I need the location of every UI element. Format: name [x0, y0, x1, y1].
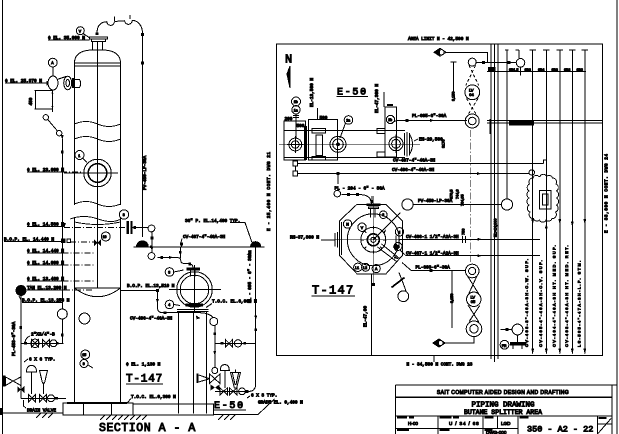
svg-text:6 X 8 TYP.: 6 X 8 TYP.: [251, 393, 277, 398]
E-50 channel box: [284, 121, 306, 160]
arrow CV-406 drop: [156, 299, 159, 304]
E-50 right head cap: [410, 134, 413, 155]
svg-text:6B2: 6B2: [577, 68, 583, 72]
45deg offset pipe: [48, 120, 58, 132]
dot bypass right: [243, 342, 246, 345]
tag circle 8: [119, 210, 128, 219]
black diamond CV-467 takeoff: [393, 243, 401, 251]
nozzle circle n2: [330, 136, 346, 152]
svg-text:10: 10: [103, 235, 107, 239]
nozzle outlet line: [133, 227, 149, 229]
riser PL-605 elevation: [255, 248, 257, 344]
tag circle 3: [165, 268, 183, 277]
svg-text:2a: 2a: [346, 119, 350, 123]
vessel T-147 top nozzle flange: [90, 37, 108, 50]
drain end circle: [48, 395, 55, 402]
svg-text:450: 450: [29, 97, 34, 105]
elbow c1: [43, 115, 48, 120]
E-50 bottom flange: [186, 304, 204, 307]
vent mushroom E-50: [220, 365, 229, 388]
rack line labels rotated: [524, 244, 581, 347]
field instrument FR: [500, 324, 526, 349]
radial diagonal NE: [373, 213, 400, 240]
drain valve E-50 no.2: [230, 388, 238, 395]
gate valve bypass: [226, 340, 233, 347]
tower shell circle plan: [347, 214, 399, 266]
svg-text:6B4: 6B4: [538, 68, 544, 72]
label TOC EL 0300: [128, 395, 177, 403]
elbow c2: [57, 131, 62, 136]
svg-text:15: 15: [82, 353, 86, 357]
vessel T-147 center line: [97, 42, 99, 289]
PL-204 branch: [334, 175, 385, 205]
bolt ticks: [361, 226, 386, 254]
svg-text:756: 756: [462, 229, 466, 235]
instrument bubble A: [48, 58, 57, 76]
check valves black: [17, 386, 24, 393]
fold tick left: [0, 408, 3, 415]
dot on feed jog: [188, 263, 191, 266]
svg-text:1b: 1b: [294, 100, 298, 104]
svg-text:PL - 204 - 6" - 86A: PL - 204 - 6" - 86A: [335, 186, 385, 191]
dot bypass left: [221, 342, 224, 345]
label 36 P EL14400: [185, 219, 252, 243]
dot drain E-50: [246, 390, 249, 393]
CV-406 plan line: [293, 166, 535, 176]
label TOC EL 6000: [206, 299, 257, 307]
tag circle 2b: [386, 115, 394, 123]
label 6x6 typ: [24, 358, 55, 363]
svg-text:2b: 2b: [388, 118, 392, 122]
tag circle N: [343, 220, 351, 228]
tag circle V: [358, 223, 366, 231]
skirt right edge: [120, 288, 122, 403]
svg-text:PV-450-LP-30A: PV-450-LP-30A: [418, 199, 453, 204]
tag circles on inlet: [292, 97, 301, 138]
dot on PL-605 riser: [254, 328, 257, 331]
svg-text:3175: 3175: [442, 140, 446, 148]
tag circle 4: [165, 300, 180, 309]
skirt left edge: [74, 288, 76, 403]
CV-467 line: [400, 250, 540, 257]
inner circle bold: [367, 234, 379, 246]
nozzle circle n1: [287, 136, 304, 153]
drain valve 1: [29, 395, 36, 403]
svg-text:PL - 605 - 6" - 30A: PL - 605 - 6" - 30A: [248, 253, 253, 303]
exchanger E-50 shell circle: [177, 272, 213, 308]
riser from plan top nozzle: [371, 196, 373, 200]
internal bowtie fitting: [94, 240, 101, 247]
rack header pipes with top tees: [505, 50, 588, 354]
tag circle A plan: [372, 265, 380, 273]
svg-text:PL-605-6"-30A: PL-605-6"-30A: [412, 114, 447, 119]
shell break wavy line 4: [70, 217, 121, 222]
svg-text:DRAIN VALVE: DRAIN VALVE: [27, 409, 56, 414]
svg-text:370,5: 370,5: [450, 189, 454, 199]
nozzle into tower: [72, 78, 81, 88]
gate valve 2: [43, 340, 50, 348]
svg-text:6B3: 6B3: [525, 68, 531, 72]
svg-text:3: 3: [168, 271, 170, 275]
PL-605 plan line: [391, 114, 467, 124]
svg-text:CV-468-3"-46A-3H-C.W. SUP.: CV-468-3"-46A-3H-C.W. SUP.: [524, 258, 529, 347]
svg-text:U / 34 / 68: U / 34 / 68: [449, 421, 480, 426]
dot at arc left: [96, 32, 99, 35]
dim texts mid: [442, 140, 466, 235]
vessel T-147 bottom head: [75, 288, 121, 297]
header line CV-407: [134, 246, 252, 248]
center circle: [371, 237, 376, 242]
dot below octagon: [372, 283, 375, 286]
svg-text:8: 8: [123, 213, 125, 217]
svg-text:CV-467-1 1/2"-A2A-3H: CV-467-1 1/2"-A2A-3H: [406, 252, 459, 257]
svg-text:9: 9: [83, 362, 85, 366]
rack flow arrows mid: [531, 219, 586, 229]
black elbow right (header to PL-605): [250, 241, 261, 247]
vent mushroom: [27, 366, 37, 395]
rack size label row: [487, 67, 586, 72]
label CV-407 elevation: [181, 235, 226, 243]
arrow on drop pipe: [150, 247, 153, 252]
ground hatching: [36, 413, 235, 420]
elevation label EL 14000: [27, 261, 95, 266]
skirt access hole: [79, 313, 90, 324]
svg-text:200: 200: [285, 117, 293, 122]
svg-text:E - 33,600 M CONT. DWG 24: E - 33,600 M CONT. DWG 24: [605, 153, 610, 233]
instrument bubble V: [76, 27, 90, 38]
label EL 25970: [5, 79, 48, 84]
svg-text:¢ EL. 1,130 M: ¢ EL. 1,130 M: [126, 362, 161, 367]
drain line PL-453 vertical: [20, 296, 22, 399]
feed line to exchanger: [157, 257, 193, 267]
riser PV-450-LP-30A: [142, 34, 144, 237]
manway M1: [64, 159, 118, 187]
svg-text:6B3: 6B3: [552, 68, 558, 72]
LV-04 inlet line: [476, 61, 517, 64]
elevation label EL 14560: [27, 223, 128, 228]
bypass manifold at EL343: [215, 342, 256, 344]
svg-text:6B2: 6B2: [564, 68, 570, 72]
label E-50 elevation: [214, 401, 247, 412]
plan top nozzle: [367, 200, 381, 218]
svg-text:500: 500: [297, 124, 305, 129]
tag circle d: [395, 228, 403, 236]
svg-text:1a: 1a: [294, 109, 298, 113]
svg-text:CV-466-1 1/2"-A2A-3H: CV-466-1 1/2"-A2A-3H: [406, 235, 459, 240]
sample manifold line: [21, 342, 64, 344]
svg-text:CV-465-4"-46A-3H-C.V. SUP.: CV-465-4"-46A-3H-C.V. SUP.: [538, 259, 543, 347]
drain manifold E-50: [215, 390, 249, 392]
svg-text:EL-47,00: EL-47,00: [363, 306, 368, 327]
drain valve E-50 no.1: [220, 388, 228, 395]
vessel T-147 shell left edge: [74, 63, 76, 205]
standpipe inline instrument: [57, 309, 67, 319]
left nozzle flange plan: [321, 232, 338, 248]
E-50 top flange: [187, 268, 200, 277]
control valve body: [210, 374, 221, 384]
header extension stub: [251, 246, 265, 248]
svg-text:T.O.C. EL.0,300 M: T.O.C. EL.0,300 M: [131, 395, 176, 400]
svg-text:2"X3/4"-B: 2"X3/4"-B: [31, 332, 55, 337]
svg-text:N: N: [285, 53, 292, 67]
label EH-29500: [414, 138, 443, 143]
base foundation: [63, 402, 213, 415]
E-50 saddle 1: [309, 119, 338, 160]
elbow circle to drop: [210, 318, 218, 326]
E-50 shell top line: [284, 130, 405, 132]
PL-605 bottom elbow: [249, 343, 256, 391]
vessel T-147 tangent weld seam: [75, 62, 121, 64]
drop pipe to E-50: [151, 231, 153, 254]
dot on header drop: [179, 251, 182, 254]
tag circles L1 L2: [354, 263, 370, 271]
svg-text:CV-406-4"-46A-3H: CV-406-4"-46A-3H: [130, 316, 173, 321]
svg-text:LGD: LGD: [501, 421, 511, 426]
svg-text:AREA LIMIT N - 42,500 M: AREA LIMIT N - 42,500 M: [408, 37, 469, 42]
vessel T-147 shell right edge: [120, 63, 122, 205]
drop line below octagon: [370, 274, 372, 356]
ground line right of E-50: [214, 399, 275, 415]
label circle 10: [101, 232, 110, 241]
label EL-47300 rotated: [375, 84, 393, 113]
LV stations centerline dash-dot: [470, 130, 472, 263]
svg-text:T-147: T-147: [312, 284, 355, 298]
dot CV-406: [156, 289, 159, 292]
svg-text:6B1.5: 6B1.5: [509, 68, 518, 72]
PV-450 plan elbow and line: [402, 50, 513, 210]
vessel T-147 bottom tangent: [75, 287, 121, 289]
radial chute SE: [378, 244, 400, 262]
drain manifold line: [21, 397, 66, 399]
pipe hop 2: [125, 20, 133, 24]
dim line LV-05: [450, 271, 454, 328]
revision cloud: [527, 174, 559, 222]
globe valve bypass: [234, 340, 241, 347]
label circle 1 (manway tag): [75, 151, 87, 163]
shell break wavy line 1: [75, 122, 121, 127]
dot at nozzle: [133, 226, 136, 229]
svg-text:BUTANE SPLITTER AREA: BUTANE SPLITTER AREA: [464, 409, 542, 416]
plan centerline vertical: [372, 196, 374, 285]
gate valve with tag circle: [31, 339, 39, 347]
label 6x8 typ grade: [247, 393, 303, 405]
hose valve with actuator: [3, 376, 21, 387]
arrow CV-406 run: [196, 316, 201, 320]
pipe hop 1: [107, 22, 115, 26]
svg-text:H-00: H-00: [408, 421, 418, 426]
pipe bridge double line: [487, 119, 602, 134]
svg-text:3,150: 3,150: [450, 293, 454, 303]
match-line arrow top: [434, 48, 488, 62]
svg-text:CV-464-4"-46A-3H HT. MED. SUP.: CV-464-4"-46A-3H HT. MED. SUP.: [551, 244, 556, 347]
CV-406 horizontal run: [163, 313, 213, 318]
svg-text:RH-37,800 M: RH-37,800 M: [290, 235, 319, 240]
E-50 centerline: [279, 143, 420, 145]
CV-406 nozzle line from tower: [121, 290, 158, 292]
check valve black pair: [211, 385, 220, 391]
vessel T-147 top dome: [75, 50, 121, 63]
svg-text:EL-47,300 M: EL-47,300 M: [375, 84, 380, 113]
lower section top seam arc: [75, 222, 121, 225]
drain end circle E-50: [239, 388, 246, 395]
right nozzle flange plan: [396, 235, 399, 246]
drain valve 2: [40, 395, 47, 403]
svg-text:04: 04: [469, 92, 474, 97]
elbow circle at rack: [516, 59, 525, 68]
vent funnel E-50: [231, 370, 241, 389]
elevation label BOP EL 13258: [19, 296, 70, 303]
match-line arrow bottom: [433, 337, 474, 347]
label EL 35000: [48, 36, 90, 41]
svg-text:EL=14,000: EL=14,000: [494, 219, 498, 237]
arrow on feed line: [169, 256, 174, 259]
svg-text:05: 05: [471, 299, 476, 304]
PL-603 line: [402, 263, 465, 272]
svg-text:764,05: 764,05: [461, 194, 465, 206]
elevation label EL 14440: [27, 249, 95, 254]
title block frame: [396, 385, 618, 434]
dot manifold left: [24, 342, 27, 345]
header drop to feed: [179, 247, 181, 258]
revision triangle box: [598, 417, 613, 434]
page left border: [2, 0, 4, 434]
dot at arc right: [141, 33, 144, 36]
svg-text:500: 500: [320, 116, 328, 121]
label BOP EL 13510: [127, 284, 175, 289]
hop tick 1: [114, 17, 116, 22]
slope instrument: [392, 273, 409, 302]
drop leg from valve: [52, 90, 54, 112]
svg-text:CV-463-4"-46A-3H HT. MED. RET.: CV-463-4"-46A-3H HT. MED. RET.: [564, 244, 569, 347]
dot CV-406 run: [164, 311, 167, 314]
flange pair ellipses: [64, 76, 72, 90]
shell break wavy line 2: [75, 137, 121, 142]
svg-text:PV-450-LP-30A: PV-450-LP-30A: [143, 155, 148, 190]
junction tick CV-407 label: [180, 243, 183, 246]
tag circle 2a: [340, 116, 353, 138]
dot on standpipe 2: [61, 334, 64, 337]
tower side nozzle EL14560: [127, 221, 133, 234]
vent funnel: [40, 371, 48, 395]
octagon left flat doubled: [340, 222, 342, 255]
E-50 outlet drop pipe: [214, 325, 216, 368]
svg-text:CV-406-4"-46A-3H: CV-406-4"-46A-3H: [392, 168, 435, 173]
svg-text:302: 302: [248, 250, 252, 256]
standpipe vertical: [61, 139, 63, 344]
tag circle 3 plan: [375, 211, 387, 219]
dots on feed line: [160, 256, 163, 259]
dot drain: [55, 397, 58, 400]
arrow on standpipe: [61, 135, 64, 140]
side valve body: [47, 76, 66, 90]
rack bottom arrows: [531, 349, 586, 355]
svg-text:GRADE EL. 0,400 M: GRADE EL. 0,400 M: [258, 400, 303, 405]
skirt tag circles: [80, 350, 93, 368]
E-50 support pedestal: [177, 310, 209, 414]
svg-text:L1: L1: [355, 266, 359, 270]
svg-text:LS-565-4"-47A-3H-L.P. STM.: LS-565-4"-47A-3H-L.P. STM.: [576, 259, 581, 347]
label E-50 plan: [337, 88, 369, 99]
label T-147 plan: [312, 284, 356, 298]
svg-text:E - 25,400 M CONT. DWG 21: E - 25,400 M CONT. DWG 21: [267, 151, 272, 231]
dot on standpipe 1: [61, 151, 64, 154]
svg-text:350 - A2 - 22: 350 - A2 - 22: [527, 425, 593, 434]
svg-text:d: d: [398, 230, 400, 234]
svg-text:SECTION A - A: SECTION A - A: [99, 422, 196, 434]
svg-text:3,150: 3,150: [452, 91, 456, 101]
svg-text:EH-29,500: EH-29,500: [419, 138, 443, 143]
nozzle circle n3: [389, 135, 403, 154]
title row 3 cells: [396, 416, 598, 434]
label T-147 elevation: [126, 374, 163, 386]
dot on PL-453: [19, 326, 22, 329]
elbow circle top: [148, 225, 155, 232]
tag circle G: [394, 242, 402, 250]
CV-406 drop: [157, 291, 163, 313]
octagon foundation: [339, 204, 402, 273]
cell header marks: [397, 417, 529, 431]
svg-text:N - 34,500 M CONT. DWG 23: N - 34,500 M CONT. DWG 23: [407, 363, 473, 368]
E-50 saddle 2 / davit frame: [377, 107, 396, 157]
control valve side actuator: [196, 374, 209, 384]
dot header: [150, 245, 153, 248]
end cap circle: [50, 340, 57, 347]
svg-text:FR: FR: [502, 344, 507, 348]
shell break wavy line 3: [75, 202, 121, 207]
dim line LV-04: [451, 62, 457, 101]
E-50 right channel flange bars: [405, 132, 410, 157]
svg-text:744,6: 744,6: [456, 189, 460, 199]
plan centerline horizontal: [333, 239, 420, 241]
svg-text:36" P. EL.14,400 TYP.: 36" P. EL.14,400 TYP.: [185, 219, 240, 224]
overhead vapor line arc with hops: [97, 20, 143, 33]
svg-text:1: 1: [78, 154, 80, 158]
svg-text:CV-407-4"-46A-3H: CV-407-4"-46A-3H: [183, 235, 226, 240]
svg-text:CV-407-4"-46A-3H: CV-407-4"-46A-3H: [393, 159, 436, 164]
elevation label EL 13460: [27, 277, 95, 282]
svg-text:PL-453-6"-30A: PL-453-6"-30A: [12, 321, 17, 356]
black elbow left (riser to header): [136, 240, 149, 246]
svg-text:EL-13,500 M: EL-13,500 M: [310, 78, 315, 107]
dot on riser: [141, 62, 144, 65]
page right border: [616, 0, 618, 434]
label 2T03-B: [25, 332, 55, 342]
svg-text:3: 3: [382, 213, 384, 217]
arrow outlet: [213, 351, 216, 356]
svg-text:PL-603-6"-30A: PL-603-6"-30A: [416, 266, 451, 271]
svg-text:DWG-000: DWG-000: [486, 430, 507, 434]
label DRAIN VALVE: [24, 400, 57, 414]
label EL-13500 rotated: [310, 78, 318, 119]
north arrow: [287, 66, 290, 88]
flange circle above control valve: [212, 368, 218, 374]
ground line left: [3, 412, 63, 414]
plan area boundary box: [277, 44, 603, 355]
E-50 shell bottom line: [284, 157, 405, 159]
svg-text:6 X 6 TYP.: 6 X 6 TYP.: [29, 358, 55, 363]
svg-text:SAIT COMPUTER AIDED DESIGN AND: SAIT COMPUTER AIDED DESIGN AND DRAFTING: [437, 390, 569, 396]
E-50 tubesheet bar: [304, 126, 307, 160]
CV-407 plan line: [293, 159, 547, 166]
svg-text:L2: L2: [363, 266, 367, 270]
elbow circle bottom: [148, 253, 155, 260]
bolt circle: [361, 227, 386, 252]
hop tick 2: [129, 15, 131, 19]
dot outlet: [213, 332, 216, 335]
CV-466 line: [399, 235, 540, 243]
dot on standpipe 1b: [61, 168, 64, 171]
arrow on PL-605 riser: [254, 316, 257, 321]
